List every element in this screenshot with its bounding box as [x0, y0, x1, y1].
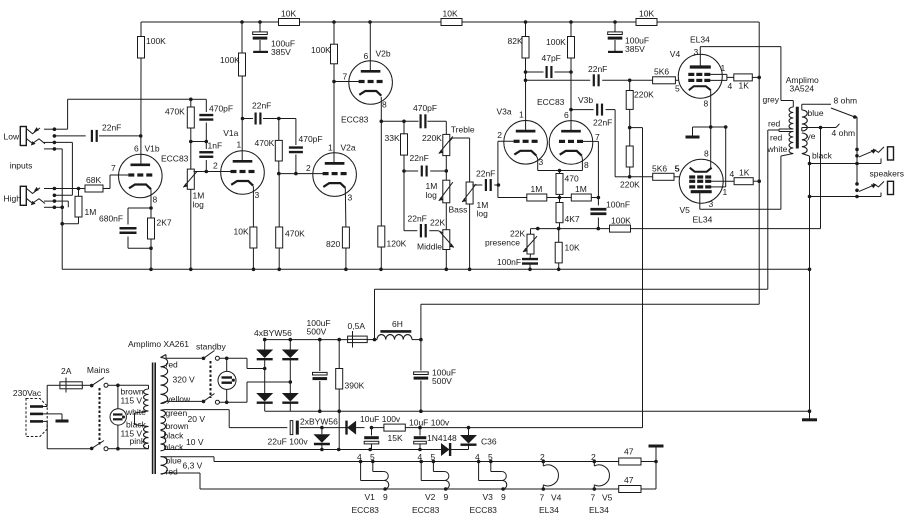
svg-text:log: log	[426, 190, 438, 200]
svg-text:1: 1	[328, 143, 333, 153]
switch mains lower	[90, 441, 118, 451]
resistor 100K (V3b anode)	[546, 22, 575, 131]
capacitor 22nF (2)	[243, 101, 296, 125]
svg-text:220K: 220K	[634, 90, 654, 100]
svg-text:black: black	[164, 431, 185, 441]
tube V5 EL34	[679, 159, 723, 203]
svg-text:2: 2	[213, 161, 218, 171]
diode bridge D4	[282, 393, 299, 403]
svg-text:1N4148: 1N4148	[427, 433, 457, 443]
ground (main)	[802, 412, 817, 420]
svg-text:1M: 1M	[575, 184, 587, 194]
resistor 4K7	[556, 198, 580, 229]
transformer secondary 320V	[161, 358, 196, 405]
capacitor 22nF (V3a out)	[524, 64, 632, 86]
resistor 47 (1)	[619, 447, 656, 466]
svg-text:grey: grey	[763, 95, 780, 105]
svg-text:500V: 500V	[432, 376, 452, 386]
wire NFB riser	[820, 128, 822, 229]
svg-text:5: 5	[431, 452, 436, 462]
svg-text:ECC83: ECC83	[341, 115, 369, 125]
node V1b cathode	[149, 206, 153, 250]
svg-text:black: black	[164, 442, 185, 452]
svg-text:ECC83: ECC83	[470, 505, 498, 515]
svg-text:Mains: Mains	[87, 365, 110, 375]
node bias tap	[628, 126, 632, 130]
svg-text:320 V: 320 V	[173, 375, 196, 385]
wire bass-middle	[445, 203, 447, 230]
wire 470K2-470K3	[278, 174, 280, 227]
svg-text:V1b: V1b	[145, 144, 160, 154]
svg-text:Treble: Treble	[451, 125, 475, 135]
svg-text:470K: 470K	[285, 229, 305, 239]
svg-text:390K: 390K	[345, 381, 365, 391]
svg-text:8: 8	[382, 100, 387, 110]
resistor 82K	[508, 22, 530, 131]
label inputs	[10, 160, 33, 170]
wire yellow to standby	[161, 401, 204, 403]
svg-text:V1a: V1a	[223, 128, 238, 138]
wire blue heater	[161, 457, 619, 462]
node speaker jack2	[855, 182, 859, 198]
wire bias tap	[630, 128, 643, 428]
lamp neon (mains)	[110, 385, 126, 448]
wire NFB to output	[631, 228, 821, 230]
wire treble wiper	[450, 138, 470, 182]
svg-text:V3: V3	[483, 492, 494, 502]
tube V2b ECC83	[349, 61, 393, 105]
wire B+ screen line	[421, 304, 759, 339]
wire standby to bridge 1	[247, 358, 265, 368]
svg-text:82K: 82K	[508, 36, 523, 46]
svg-text:680nF: 680nF	[99, 214, 123, 224]
svg-text:10K: 10K	[639, 9, 654, 19]
resistor 1K (V5)	[734, 168, 759, 185]
svg-text:6: 6	[564, 110, 569, 120]
transformer secondary 10V	[161, 431, 204, 452]
wire Low tip to volume	[54, 99, 190, 129]
wire V3a grid	[498, 141, 527, 197]
svg-text:standby: standby	[196, 342, 227, 352]
svg-text:9: 9	[501, 492, 506, 502]
svg-text:385V: 385V	[625, 44, 645, 54]
svg-text:4: 4	[728, 81, 733, 91]
tube V3b ECC83	[549, 121, 593, 165]
wire standby to bridge 2	[247, 382, 290, 402]
capacitor 22nF (5)	[472, 169, 500, 192]
potentiometer 220K Treble	[422, 121, 475, 155]
resistor 470K (V1a grid 1)	[165, 99, 194, 141]
wire PSU 0V rail	[265, 409, 812, 413]
svg-text:V5: V5	[680, 205, 691, 215]
wire black terminal	[802, 151, 833, 413]
node Low jack contacts	[44, 127, 56, 150]
svg-text:V2: V2	[425, 492, 436, 502]
wire red to standby	[161, 355, 204, 359]
svg-text:5K6: 5K6	[652, 164, 667, 174]
svg-text:220K: 220K	[422, 133, 442, 143]
wire V3b grid NFB	[583, 141, 598, 197]
diode bias series	[322, 421, 365, 435]
wire V2b anode	[369, 22, 371, 71]
svg-text:Bass: Bass	[449, 205, 468, 215]
resistor 1K (V4)	[734, 74, 759, 91]
node ground rail	[149, 268, 560, 272]
capacitor 680nF	[99, 208, 151, 248]
svg-text:Low: Low	[4, 132, 20, 142]
heater V5 (pins 2,7)	[589, 452, 613, 515]
wire tip column	[855, 117, 857, 184]
svg-text:4: 4	[418, 452, 423, 462]
wire V3 cathodes	[536, 156, 582, 173]
svg-text:2xBYW56: 2xBYW56	[300, 417, 338, 427]
transformer primary 115V (1)	[121, 387, 149, 417]
svg-text:ye: ye	[807, 131, 816, 141]
capacitor 100uF 500V (4)	[414, 340, 457, 412]
wire High contact 2	[54, 194, 72, 196]
potentiometer 22K presence	[485, 229, 537, 255]
potentiometer 1M log (volume)	[183, 142, 204, 270]
label standby	[196, 342, 227, 352]
ground (heater)	[649, 445, 664, 448]
node rail-V3	[524, 20, 617, 24]
svg-text:ECC83: ECC83	[161, 154, 189, 164]
svg-text:3: 3	[255, 190, 260, 200]
svg-text:EL34: EL34	[690, 35, 710, 45]
svg-text:5: 5	[675, 84, 680, 94]
wire Low contact 3	[54, 142, 72, 195]
wire cathode gnd	[693, 125, 728, 135]
wire 0V to bias rail	[338, 411, 340, 449]
svg-text:8: 8	[704, 149, 709, 159]
svg-text:ECC83: ECC83	[412, 505, 440, 515]
svg-text:22uF 100v: 22uF 100v	[268, 436, 309, 446]
lamp neon (standby)	[218, 358, 236, 402]
wire plug neutral	[43, 421, 92, 448]
node NFB grid junction	[597, 196, 601, 200]
svg-text:9: 9	[383, 492, 388, 502]
label 1N4148	[427, 433, 457, 443]
label V4	[670, 35, 733, 109]
label Mains	[87, 365, 110, 375]
svg-text:20 V: 20 V	[188, 414, 206, 424]
wire white terminal	[767, 144, 794, 156]
svg-text:385V: 385V	[271, 47, 291, 57]
svg-text:0,5A: 0,5A	[348, 321, 366, 331]
capacitor 100nF (NFB)	[590, 198, 630, 229]
svg-text:EL34: EL34	[693, 215, 713, 225]
svg-text:red: red	[770, 133, 783, 143]
svg-text:22K: 22K	[430, 218, 445, 228]
heater V1 (pins 4,5,9)	[352, 452, 389, 515]
resistor 33K	[385, 120, 408, 156]
node cathode junction	[558, 196, 562, 200]
svg-text:220K: 220K	[620, 180, 640, 190]
node volume top	[189, 98, 193, 102]
svg-text:100K: 100K	[220, 55, 240, 65]
svg-text:C36: C36	[481, 437, 497, 447]
svg-text:47: 47	[624, 475, 634, 485]
svg-text:2: 2	[497, 130, 502, 140]
node neon2	[225, 357, 229, 405]
transformer OPT secondary upper	[802, 110, 807, 131]
label Amplimo 3A524	[786, 75, 819, 94]
wire High contact 4	[54, 206, 64, 210]
svg-text:V4: V4	[670, 49, 681, 59]
svg-text:1K: 1K	[739, 81, 750, 91]
node screens V4	[757, 76, 761, 80]
svg-text:5: 5	[488, 452, 493, 462]
capacitor 1nF	[199, 141, 222, 174]
resistor 2K7	[148, 190, 172, 270]
tube V1a ECC83	[221, 151, 265, 195]
label V3a pin2	[497, 130, 502, 140]
transformer XA261 core	[153, 363, 156, 475]
resistor 470K (2)	[255, 119, 283, 174]
svg-text:8: 8	[153, 195, 158, 205]
svg-text:4: 4	[357, 452, 362, 462]
svg-text:100K: 100K	[611, 216, 631, 226]
svg-text:V5: V5	[602, 493, 613, 503]
svg-text:3: 3	[694, 47, 699, 57]
tube V1b ECC83	[119, 154, 163, 198]
wire High tip	[54, 188, 85, 190]
wire ground rail	[62, 268, 810, 270]
wire green	[161, 410, 288, 428]
svg-text:10uF 100v: 10uF 100v	[360, 414, 401, 424]
svg-text:22nF: 22nF	[408, 214, 427, 224]
svg-text:3: 3	[348, 193, 353, 203]
svg-text:1K: 1K	[739, 168, 750, 178]
svg-text:10K: 10K	[565, 243, 580, 253]
wire bias return rail	[164, 448, 469, 452]
wire blue terminal	[802, 96, 857, 119]
svg-text:22nF: 22nF	[588, 64, 607, 74]
svg-text:blue: blue	[808, 108, 824, 118]
inductor 6H choke	[377, 319, 412, 340]
svg-text:470pF: 470pF	[209, 104, 233, 114]
fuse 0,5A	[348, 321, 368, 347]
node bias2	[370, 426, 374, 430]
svg-text:2K7: 2K7	[157, 218, 172, 228]
svg-text:Amplimo XA261: Amplimo XA261	[128, 339, 189, 349]
svg-text:V2b: V2b	[376, 48, 391, 58]
svg-text:8 ohm: 8 ohm	[834, 96, 858, 106]
resistor 100K (V1a anode)	[220, 22, 246, 161]
svg-text:115 V: 115 V	[121, 395, 143, 405]
svg-text:6: 6	[134, 144, 139, 154]
diode 1N4148	[441, 443, 450, 456]
resistor 1M (left)	[527, 184, 560, 201]
wire treble-bass	[445, 156, 447, 181]
jack Low input	[4, 127, 46, 146]
svg-text:red: red	[166, 467, 179, 477]
diode bridge D3	[256, 393, 273, 403]
capacitor 470pF (1)	[191, 99, 233, 141]
svg-text:brown: brown	[166, 421, 189, 431]
svg-text:1: 1	[723, 187, 728, 197]
svg-text:ECC83: ECC83	[537, 97, 565, 107]
svg-text:1: 1	[519, 110, 524, 120]
svg-text:470K: 470K	[165, 107, 185, 117]
svg-text:100K: 100K	[311, 45, 331, 55]
svg-text:inputs: inputs	[10, 160, 33, 170]
switch standby upper	[202, 351, 247, 361]
node screens V5	[757, 179, 761, 183]
resistor 10K (divider)	[555, 229, 580, 270]
node rail-V1b	[240, 20, 262, 24]
wire B+ top rail	[141, 21, 759, 23]
resistor 68K	[85, 175, 103, 192]
svg-text:EL34: EL34	[539, 505, 559, 515]
svg-text:7: 7	[540, 493, 545, 503]
wire V5 g3	[711, 127, 726, 187]
svg-text:22nF: 22nF	[102, 123, 121, 133]
tube V4 EL34	[678, 54, 722, 98]
svg-text:black: black	[812, 151, 833, 161]
wire V5 anode	[700, 156, 781, 209]
svg-text:100K: 100K	[546, 37, 566, 47]
transformer OPT secondary lower	[802, 133, 807, 154]
svg-text:3A524: 3A524	[790, 84, 815, 94]
capacitor 22nF (6)	[404, 214, 445, 238]
diode bridge D2	[282, 350, 299, 360]
wire tone top	[381, 120, 446, 122]
resistor 100K (NFB)	[610, 216, 632, 233]
svg-text:2A: 2A	[61, 366, 72, 376]
wire High contact 3	[54, 201, 68, 207]
svg-text:100nF: 100nF	[497, 257, 521, 267]
svg-text:1M: 1M	[531, 184, 543, 194]
svg-text:V3b: V3b	[578, 95, 593, 105]
svg-text:red: red	[768, 119, 781, 129]
capacitor 100uF 500V (3)	[307, 318, 331, 411]
wire bridge left	[263, 340, 267, 412]
svg-text:470pF: 470pF	[299, 134, 323, 144]
resistor 220K (lower)	[620, 146, 640, 190]
wire 470K-470pF bottom	[189, 140, 208, 144]
svg-text:red: red	[166, 360, 179, 370]
wire plug earth	[43, 414, 62, 420]
switch mains upper	[82, 378, 118, 388]
transformer OPT primary upper	[789, 107, 793, 129]
svg-text:3: 3	[709, 199, 714, 209]
label 230Vac	[13, 388, 42, 398]
svg-text:10 V: 10 V	[186, 437, 204, 447]
svg-text:1nF: 1nF	[208, 141, 223, 151]
svg-text:1M: 1M	[85, 207, 97, 217]
diode bridge D1	[256, 350, 273, 360]
svg-text:speakers: speakers	[870, 169, 905, 179]
wire B+ screens	[758, 22, 760, 304]
svg-text:33K: 33K	[385, 133, 400, 143]
wire B+ rail	[263, 338, 423, 342]
wire B+ CT line	[375, 289, 768, 339]
wire to primary top	[118, 385, 149, 389]
capacitor 22nF (V3b out)	[569, 104, 629, 177]
wire bias to C36	[427, 426, 643, 430]
svg-text:4 ohm: 4 ohm	[832, 128, 856, 138]
wire V4-V5 cathode	[710, 127, 712, 168]
switch standby link	[210, 361, 212, 398]
svg-text:470pF: 470pF	[413, 103, 437, 113]
svg-text:High: High	[4, 194, 22, 204]
wire plug live	[43, 385, 60, 406]
capacitor 47pF	[524, 53, 573, 78]
svg-text:1: 1	[721, 63, 726, 73]
wire 68K to grid	[103, 175, 128, 189]
svg-text:6,3 V: 6,3 V	[183, 461, 203, 471]
wire red heater	[161, 473, 619, 489]
ground (V4/V5 cathodes)	[686, 136, 700, 139]
svg-text:V2a: V2a	[341, 143, 356, 153]
svg-text:68K: 68K	[86, 175, 101, 185]
svg-text:470K: 470K	[255, 138, 275, 148]
svg-text:2: 2	[591, 452, 596, 462]
wire V4 anode	[700, 47, 781, 101]
svg-text:4xBYW56: 4xBYW56	[254, 328, 292, 338]
svg-text:100nF: 100nF	[606, 200, 630, 210]
heater V3 (pins 4,5,9)	[470, 452, 507, 515]
potentiometer 1M log (2)	[462, 182, 488, 269]
wire V2a grid	[277, 172, 323, 176]
switch 8ohm	[831, 108, 857, 119]
svg-text:V3a: V3a	[497, 107, 512, 117]
capacitor 10uF 100v (1)	[360, 414, 401, 449]
switch mains link	[99, 388, 101, 445]
wire grey terminal	[763, 95, 794, 108]
plug mains	[26, 399, 47, 437]
node V1a anode-22nF	[241, 117, 245, 121]
node NFB wire	[536, 227, 600, 231]
svg-text:2: 2	[306, 163, 311, 173]
resistor 100K (V1b anode)	[138, 22, 167, 58]
transformer XA261 label	[128, 339, 189, 349]
svg-text:7: 7	[111, 163, 116, 173]
node bias3	[418, 426, 422, 430]
svg-text:22nF: 22nF	[593, 118, 612, 128]
capacitor 22nF (Low input)	[54, 123, 140, 142]
capacitor 22nF (4)	[404, 153, 448, 177]
resistor 1M (input)	[60, 187, 96, 226]
capacitor 100nF (presence)	[497, 254, 538, 269]
svg-text:22nF: 22nF	[410, 153, 429, 163]
node black gnd	[808, 162, 812, 271]
label V1b pins	[111, 144, 189, 205]
svg-text:15K: 15K	[388, 433, 403, 443]
svg-text:10K: 10K	[281, 9, 296, 19]
wire sleeve 1	[810, 159, 882, 164]
svg-text:2: 2	[540, 452, 545, 462]
switch standby lower	[202, 394, 247, 405]
label V1a pins	[213, 128, 260, 200]
svg-text:10K: 10K	[234, 227, 249, 237]
wire V4 pins14	[710, 74, 734, 80]
svg-text:10uF 100v: 10uF 100v	[409, 417, 450, 427]
resistor 820 (V2a cathode)	[326, 188, 349, 269]
wire V2a anode to V2b grid	[332, 64, 358, 164]
resistor 5K6 (V5)	[630, 164, 680, 181]
svg-text:6: 6	[364, 51, 369, 61]
wire NFB	[531, 228, 610, 230]
label V2a pins	[306, 115, 369, 203]
svg-text:8: 8	[584, 160, 589, 170]
node rail-V2b	[332, 20, 372, 24]
wire V5 pin4	[711, 180, 734, 182]
svg-text:470: 470	[565, 174, 579, 184]
capacitor 470pF (3)	[413, 103, 437, 128]
svg-text:47pF: 47pF	[542, 53, 561, 63]
